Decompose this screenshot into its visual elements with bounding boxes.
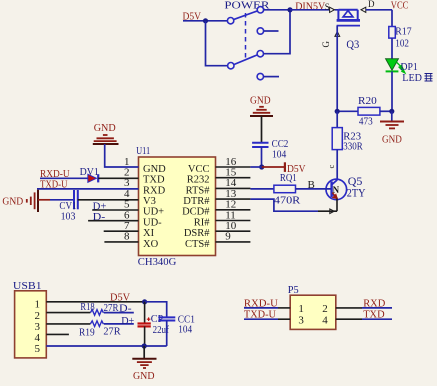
svg-text:103: 103 [61,210,76,222]
wire R19 to net D+ [104,323,134,325]
connector USB1 body [13,280,46,358]
node DIN5V junction [287,7,292,12]
node R20 right junction [389,109,394,114]
pin numbers 1-8 [124,156,130,243]
net label DIN5V [295,1,325,13]
pin D of Q3 [361,0,375,12]
net label TXD-U (P5) [244,309,276,321]
resistor R17 [389,26,412,49]
net label D+ (chip) [93,201,107,213]
wire RXD-U to P5 pin1 [244,307,290,309]
svg-text:473: 473 [359,116,373,127]
svg-text:GND: GND [133,370,155,382]
wire D+ to chip pin5 [92,209,138,211]
ground (above chip) [93,122,119,144]
resistor R18 (zigzag) [80,302,118,315]
wire Q3 gate down to R20/R23 node [336,26,338,112]
net label RXD-U (left) [40,168,70,180]
net label RXD-U (P5) [244,297,278,309]
chip pin names (left) [143,164,166,250]
svg-text:GND: GND [382,134,402,146]
net label VCC [391,0,409,12]
LED value label LED蓝 [402,72,432,84]
svg-text:VCC: VCC [188,164,210,175]
svg-text:R17: R17 [395,26,411,37]
wire bottom rail to CC1 [144,345,167,347]
net label D5V (USB rail) [110,292,130,304]
svg-text:9: 9 [225,231,231,243]
wire P5 pin2 to RXD [336,307,392,309]
wire USB pin1 to D5V rail [46,301,144,303]
svg-text:DTR#: DTR# [183,196,210,207]
svg-text:V3: V3 [143,196,156,207]
net label RXD [363,297,385,309]
svg-text:UD-: UD- [143,217,162,228]
svg-text:GND: GND [250,94,271,106]
pin G of Q3 [321,32,340,48]
svg-text:DSR#: DSR# [184,228,210,239]
svg-text:XO: XO [143,239,159,250]
svg-text:D+: D+ [121,315,134,327]
pin S of Q3 [325,2,335,12]
svg-text:U11: U11 [136,145,150,157]
wire P5 pin4 to TXD [336,318,392,320]
svg-text:8: 8 [124,231,130,243]
svg-text:LED: LED [402,72,422,84]
svg-text:RI#: RI# [194,217,211,228]
svg-text:CTS#: CTS# [185,239,210,250]
svg-text:D-: D- [119,303,132,315]
wire R17 to LED [391,38,393,59]
transistor Q3 (P-MOSFET) [337,10,360,26]
wire pin13 DTR# to Q5 emitter [250,199,337,211]
wire rail to CC1 branch [145,302,167,317]
net label D- (chip) [93,211,106,223]
switch POWER label [224,0,270,12]
transistor Q5 [326,174,366,200]
pin 8 stub XO [104,241,138,243]
svg-text:UD+: UD+ [143,207,164,218]
wire ground to pin1 GND [105,144,139,167]
LED DP1 [386,59,418,73]
node pin16 junction [259,164,264,169]
svg-text:330R: 330R [343,142,362,153]
svg-text:DCD#: DCD# [182,207,210,218]
ground (top centre, above CC2) [250,94,273,116]
wire D5V to switch pole 1 [183,20,227,22]
wire LED cathode to R20 node [391,71,393,111]
pin 7 stub XI [104,230,139,232]
wire D- to chip pin6 [88,220,138,222]
USB1 pin numbers [35,298,41,355]
right pin stubs 16..9 [216,167,251,242]
node R20 left junction [335,109,340,114]
node D5V rail junction [142,299,147,304]
pin numbers 16-9 [225,156,237,243]
wire R23 to Q5 collector [326,150,337,180]
svg-text:R18: R18 [80,302,94,313]
svg-text:102: 102 [395,39,409,50]
svg-text:DIN5V: DIN5V [295,1,325,13]
svg-text:104: 104 [272,148,287,160]
svg-text:Q3: Q3 [346,37,359,51]
resistor R19 (zigzag) [79,321,121,339]
net label TXD-U (left) [40,179,68,191]
svg-text:GND: GND [94,122,116,134]
wire TXD-U to P5 pin3 [244,318,290,320]
svg-text:104: 104 [178,323,192,335]
svg-text:R19: R19 [79,328,95,339]
svg-text:27R: 27R [103,327,120,338]
wire Q3 drain to VCC [366,10,392,27]
net label TXD [363,309,384,321]
wire CV1 to chip pin4 [78,199,139,201]
svg-text:XI: XI [143,228,155,239]
pin e arrow of Q5 [330,209,334,214]
wire ground to CC2 [261,116,263,142]
svg-text:3: 3 [298,315,304,327]
node ground rail junction [142,343,147,348]
capacitor CC2 [252,138,288,160]
svg-text:RTS#: RTS# [186,185,211,196]
power bar D5V (right of chip) [262,162,306,175]
svg-text:TXD: TXD [363,309,384,321]
svg-text:VCC: VCC [391,0,409,12]
ground (right, below R20) [380,111,404,145]
svg-text:5: 5 [35,343,41,355]
capacitor CP (electrolytic) [138,302,170,346]
chip U11 CH340G body [136,145,215,268]
ground (far left, rotated) [2,190,50,212]
wire TXD-U to chip pin3 [37,188,139,190]
switch POWER pole 1 [227,7,263,35]
svg-text:R232: R232 [187,175,210,186]
switch POWER pole 2 [228,51,264,80]
wire Q5 emitter down [336,199,338,212]
svg-text:470R: 470R [274,196,300,207]
wire CC2 to pin16 net [261,147,263,167]
capacitor CC1 [158,313,195,346]
svg-text:CH340G: CH340G [138,256,177,268]
wire USB pin3 to R19 [46,323,90,325]
resistor R23 [332,111,362,152]
wire USB pin2 to R18 [46,312,90,314]
svg-text:GND: GND [2,196,23,208]
svg-text:RXD: RXD [143,185,166,196]
wire DIN5V to Q3 source [290,9,338,11]
wire RXD-U to diode [40,177,88,179]
svg-text:GND: GND [143,164,166,175]
wire diode to chip pin2 [98,177,138,179]
svg-text:D5V: D5V [287,163,306,175]
node D5V junction [203,18,208,23]
svg-text:4: 4 [322,315,328,327]
svg-text:G: G [321,41,331,48]
svg-text:DV1: DV1 [80,166,99,178]
svg-text:1: 1 [35,298,41,310]
resistor RQ1 [250,173,331,207]
wire switch throws to DIN5V [264,10,290,54]
switch mechanical link (dashed) [245,13,247,60]
chip pin names (right) [182,164,210,250]
wire D5V down to switch pole 2 [206,21,228,66]
net label D+ (USB) [121,315,134,327]
wire pin16 to junction [250,166,261,168]
svg-text:USB1: USB1 [13,280,42,292]
svg-text:TXD: TXD [143,175,165,186]
net label D5V (top) [183,10,202,22]
ground (bottom, below USB rail) [132,346,156,382]
switch unused throw stubs [264,31,279,77]
pin 4 stub USB [46,333,69,335]
wire ground to CV1 [50,199,74,201]
svg-text:S: S [325,2,330,12]
svg-text:R20: R20 [358,96,377,107]
diode DV1 [80,166,99,182]
pin B label of Q5 [308,179,315,191]
svg-text:1: 1 [298,303,304,315]
Q3 designator [346,37,359,51]
wire USB pin5 to ground rail [46,345,144,347]
svg-text:P5: P5 [288,284,299,296]
svg-text:2TY: 2TY [347,185,366,199]
svg-text:c: c [326,165,336,169]
svg-text:2: 2 [322,303,328,315]
resistor R20 [337,96,392,127]
P5 pin numbers [298,303,328,327]
capacitor CV1 [59,190,77,222]
wire R18 to net D- [104,312,134,314]
connector P5 body [288,284,336,329]
svg-text:D: D [368,0,375,9]
net label D- (USB) [119,303,132,315]
